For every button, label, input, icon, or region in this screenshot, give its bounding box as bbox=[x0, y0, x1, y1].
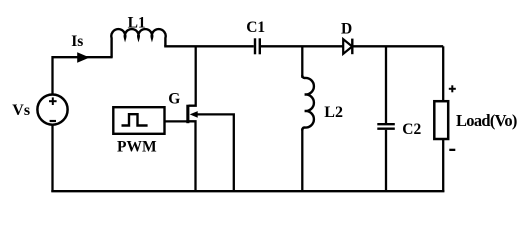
PWM pulse waveform bbox=[122, 114, 148, 125]
PWM box bbox=[113, 107, 164, 134]
svg-text:C2: C2 bbox=[402, 121, 421, 138]
svg-text:D: D bbox=[341, 20, 352, 37]
Vs minus sign bbox=[50, 120, 56, 122]
transistor Q1 (MOSFET) bbox=[186, 46, 234, 192]
svg-text:L1: L1 bbox=[128, 14, 146, 31]
wire: top rail from C1 to diode anode bbox=[261, 45, 344, 47]
wire: gate lead from PWM to MOSFET bbox=[164, 120, 187, 122]
capacitor C1 bbox=[255, 38, 260, 54]
svg-text:PWM: PWM bbox=[117, 138, 157, 155]
bottom rail bbox=[51, 190, 444, 192]
inductor L1 bbox=[111, 29, 165, 57]
inductor L2 bbox=[302, 75, 314, 131]
wire: C2 top lead bbox=[385, 46, 387, 123]
wire: Vs bottom lead bbox=[51, 125, 53, 192]
svg-text:Load(Vo): Load(Vo) bbox=[456, 111, 517, 130]
svg-text:Is: Is bbox=[71, 33, 83, 50]
load plus sign bbox=[449, 85, 456, 92]
svg-text:C1: C1 bbox=[246, 19, 265, 36]
svg-text:L2: L2 bbox=[324, 104, 343, 121]
voltage source Vs bbox=[37, 95, 67, 125]
wire: load top lead bbox=[442, 46, 444, 100]
load minus sign bbox=[449, 149, 455, 151]
Vs plus sign bbox=[49, 97, 57, 105]
wire: top rail from diode cathode to load corner bbox=[353, 45, 443, 47]
svg-text:Vs: Vs bbox=[12, 102, 30, 119]
wire: load bottom lead bbox=[442, 140, 444, 192]
capacitor C2 bbox=[377, 124, 395, 129]
wire: Vs top lead and horizontal to L1 bbox=[53, 57, 113, 95]
diode D bbox=[343, 39, 352, 55]
wire: L2 top lead bbox=[301, 46, 303, 78]
svg-text:G: G bbox=[168, 91, 180, 108]
current arrow Is bbox=[77, 52, 89, 63]
wire: L2 bottom lead bbox=[301, 129, 303, 193]
wire: C2 bottom lead bbox=[385, 130, 387, 192]
load resistor rectangle bbox=[434, 101, 448, 139]
wire: top rail from L1 to C1 left plate bbox=[164, 45, 254, 47]
